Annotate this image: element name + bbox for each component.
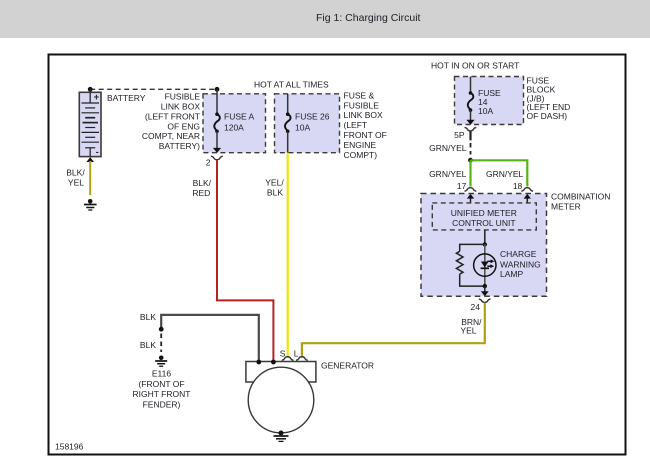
svg-text:WARNING: WARNING — [500, 259, 541, 269]
label fusible link box location — [142, 92, 200, 152]
svg-text:GRN/YEL: GRN/YEL — [429, 143, 467, 153]
svg-text:24: 24 — [471, 302, 481, 312]
wire BLK/YEL battery to ground — [89, 161, 91, 195]
resistor R1 parallel branch — [456, 244, 484, 286]
svg-text:L: L — [294, 349, 299, 359]
svg-text:(FRONT OF: (FRONT OF — [138, 379, 184, 389]
fusible link box (fuse A) — [203, 94, 266, 153]
ground: battery ground — [84, 199, 97, 210]
svg-text:YEL: YEL — [460, 326, 476, 336]
terminal L — [294, 349, 308, 361]
svg-text:YEL/: YEL/ — [265, 178, 284, 188]
fuse A 120A — [213, 89, 255, 153]
connector pin 2 below fuse A — [206, 156, 223, 168]
fuse 26 10A — [285, 94, 330, 153]
svg-text:OF ENG: OF ENG — [167, 121, 200, 131]
svg-text:GRN/YEL: GRN/YEL — [429, 169, 467, 179]
svg-text:BLK/: BLK/ — [66, 167, 85, 177]
wire YEL/BLK fuse 26 to generator S — [287, 153, 289, 357]
svg-text:FUSE 26: FUSE 26 — [295, 112, 330, 122]
svg-text:158196: 158196 — [55, 442, 84, 452]
svg-text:E116: E116 — [152, 369, 171, 379]
pin 17 — [457, 181, 476, 191]
terminal S — [280, 349, 294, 361]
wire: hidden BLK dashed — [160, 334, 162, 353]
svg-text:UNIFIED METER: UNIFIED METER — [451, 208, 517, 218]
svg-text:FUSE A: FUSE A — [224, 112, 255, 122]
node: fuse A top junction — [215, 87, 220, 92]
svg-text:BATTERY): BATTERY) — [159, 141, 200, 151]
svg-text:120A: 120A — [224, 123, 244, 133]
label E116 location — [133, 369, 191, 410]
node BLK/RED at generator — [271, 360, 276, 365]
node BLK at generator — [256, 360, 261, 365]
wire GRN/YEL to pin 18 — [471, 160, 528, 186]
arrow into pin 17 — [467, 194, 474, 203]
svg-text:CONTROL UNIT: CONTROL UNIT — [452, 218, 515, 228]
svg-text:FUSIBLE: FUSIBLE — [165, 92, 201, 102]
generator G1 — [246, 362, 316, 433]
node lamp top — [483, 242, 487, 246]
svg-text:HOT IN ON OR START: HOT IN ON OR START — [431, 61, 519, 71]
svg-text:2: 2 — [206, 158, 211, 168]
battery — [79, 89, 101, 157]
node lamp bottom — [483, 284, 487, 288]
svg-text:Fig 1: Charging Circuit: Fig 1: Charging Circuit — [316, 12, 421, 24]
svg-text:LINK BOX: LINK BOX — [344, 110, 384, 120]
unified meter control unit U1 — [432, 203, 536, 230]
label CHARGE WARNING LAMP — [500, 249, 541, 279]
svg-text:ENGINE: ENGINE — [344, 140, 377, 150]
svg-text:OF DASH): OF DASH) — [527, 111, 568, 121]
wire: dashed feed battery to fuse A — [90, 88, 217, 90]
wire lamp to pin 24 with arrow — [481, 286, 489, 296]
label fuse block location — [527, 76, 571, 122]
svg-text:LAMP: LAMP — [500, 269, 523, 279]
svg-text:+: + — [94, 92, 100, 103]
svg-text:(LEFT: (LEFT — [344, 120, 368, 130]
wire BRN/YEL pin24 to generator L — [302, 303, 485, 357]
arrow into battery bottom — [86, 157, 94, 162]
pin 18 — [513, 181, 533, 191]
arrow into pin 18 — [524, 194, 531, 203]
node: green wire junction — [468, 158, 473, 163]
svg-text:GENERATOR: GENERATOR — [321, 361, 374, 371]
svg-text:RIGHT FRONT: RIGHT FRONT — [133, 389, 191, 399]
svg-text:CHARGE: CHARGE — [500, 249, 537, 259]
svg-text:YEL: YEL — [68, 177, 84, 187]
node BLK junction — [159, 327, 164, 332]
svg-text:18: 18 — [513, 181, 523, 191]
svg-text:GRN/YEL: GRN/YEL — [486, 169, 524, 179]
svg-text:FUSE &: FUSE & — [344, 90, 375, 100]
charge warning lamp DS1 — [474, 244, 496, 286]
svg-text:BLK: BLK — [140, 340, 156, 350]
connector pin 24 — [471, 299, 491, 312]
ground E116 — [155, 356, 167, 367]
svg-text:LINK BOX: LINK BOX — [161, 102, 201, 112]
svg-text:17: 17 — [457, 181, 467, 191]
svg-text:COMPT, NEAR: COMPT, NEAR — [142, 131, 200, 141]
svg-text:BATTERY: BATTERY — [107, 93, 146, 103]
svg-text:BLK: BLK — [140, 312, 156, 322]
wire BLK generator to ground lead — [161, 315, 259, 362]
svg-text:(LEFT FRONT: (LEFT FRONT — [145, 111, 200, 121]
svg-text:BLK: BLK — [267, 188, 283, 198]
wire GRN/YEL to pin 17 — [469, 160, 471, 186]
connector 5P — [454, 127, 476, 140]
node: battery positive junction — [88, 87, 93, 92]
combination meter box — [421, 194, 547, 297]
wire BLK/RED fuse A to generator — [217, 160, 273, 361]
svg-text:FENDER): FENDER) — [143, 399, 181, 409]
svg-text:10A: 10A — [295, 123, 310, 133]
svg-text:-: - — [96, 147, 99, 157]
svg-text:RED: RED — [192, 188, 210, 198]
svg-text:10A: 10A — [478, 106, 493, 116]
svg-text:FUSIBLE: FUSIBLE — [344, 100, 380, 110]
svg-text:HOT AT ALL TIMES: HOT AT ALL TIMES — [254, 80, 329, 90]
svg-text:BLK/: BLK/ — [193, 178, 212, 188]
fuse block J/B (fuse 14) — [455, 77, 524, 125]
fuse 14 10A — [466, 77, 501, 125]
wire: hidden GRN/YEL dashed — [470, 143, 472, 155]
fuse & fusible link box (fuse 26) — [275, 94, 340, 153]
svg-text:COMBINATION: COMBINATION — [551, 191, 610, 201]
svg-text:5P: 5P — [454, 130, 465, 140]
label fuse & fusible link box location — [344, 90, 387, 159]
svg-text:FRONT OF: FRONT OF — [344, 130, 387, 140]
ground: generator ground — [274, 431, 289, 442]
svg-text:COMPT): COMPT) — [344, 150, 378, 160]
wire UMCU to lamp — [484, 230, 486, 245]
title bar — [0, 0, 650, 38]
svg-text:METER: METER — [551, 201, 581, 211]
